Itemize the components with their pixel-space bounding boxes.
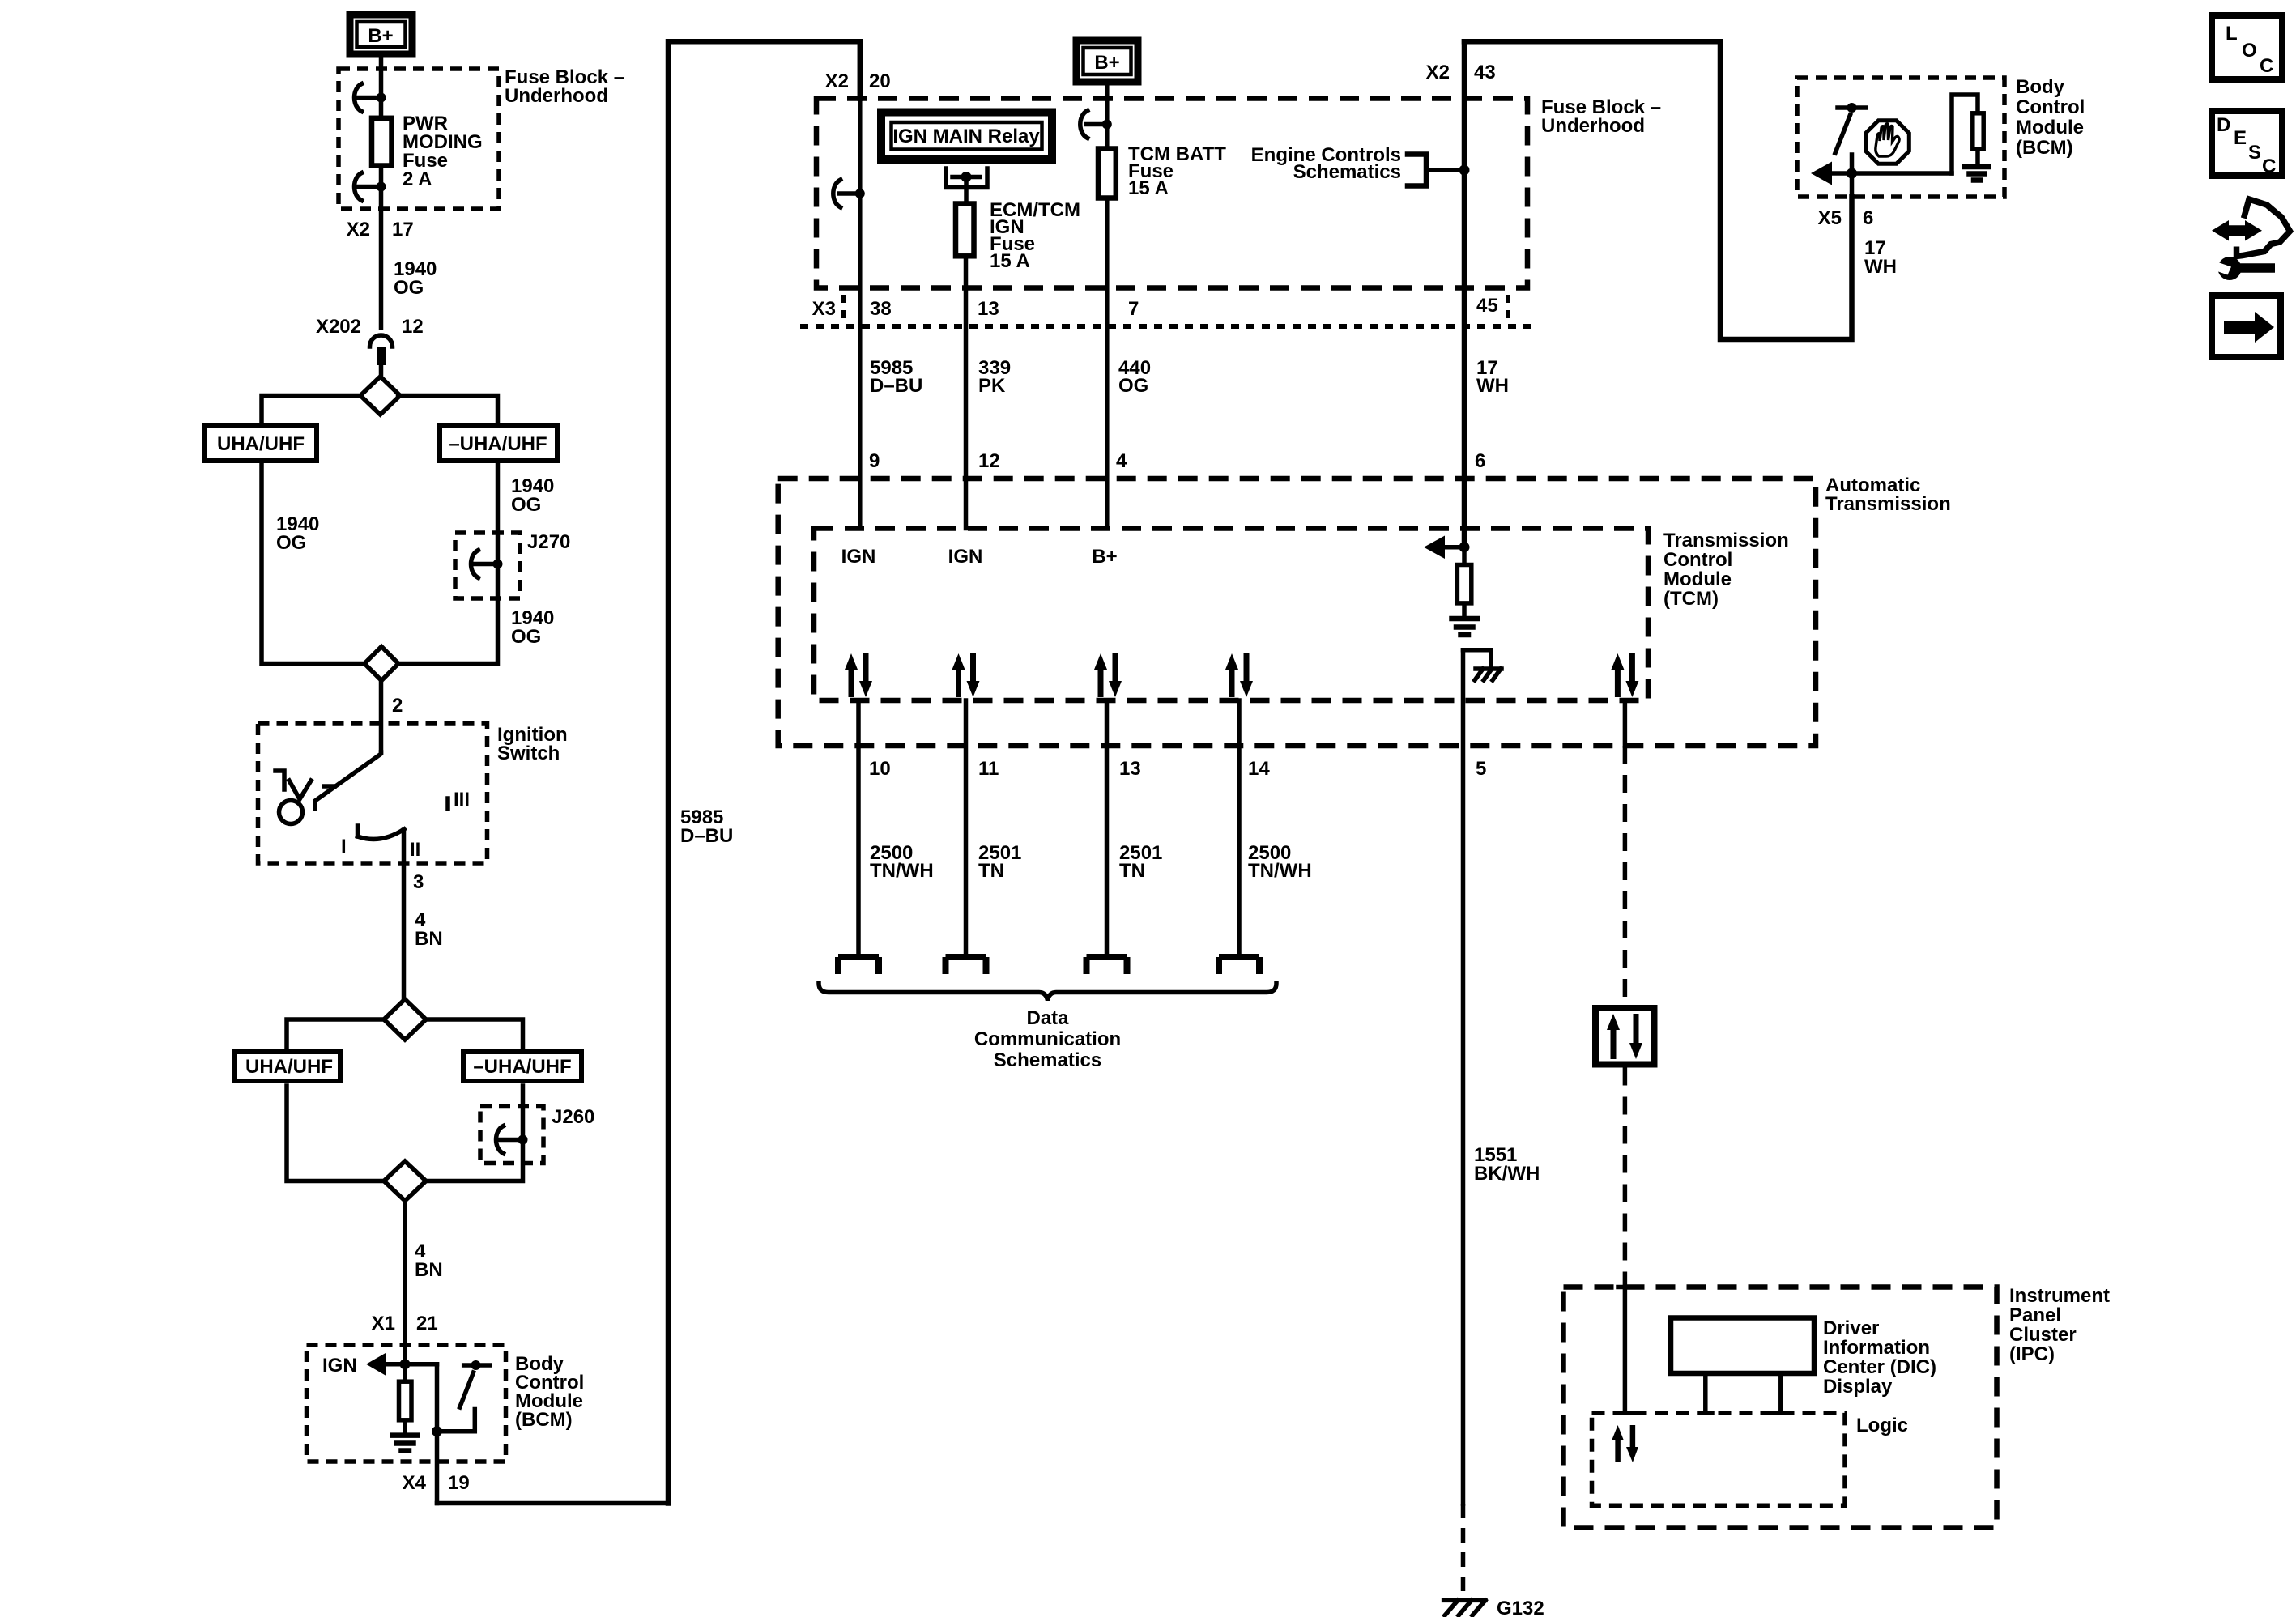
- bracket Engine Controls: [1408, 155, 1470, 186]
- svg-text:J270: J270: [527, 531, 570, 553]
- wire IPC link solid segment: [1623, 700, 1628, 746]
- terminator wire 11: [946, 957, 986, 974]
- wire TCM pin 13: [1105, 700, 1110, 954]
- node IGN label with arrow: [322, 1353, 437, 1377]
- svg-text:43: 43: [1474, 62, 1496, 83]
- body control module dashed box (bottom left): [307, 1345, 506, 1462]
- ignition key symbol: [275, 771, 334, 824]
- wire right branch down: [398, 463, 498, 664]
- wire IPC link dashed lower: [1623, 1068, 1628, 1287]
- connector X3 tick right: [1506, 295, 1510, 326]
- fuse ECM/TCM IGN 15A: [956, 204, 974, 257]
- wire diamond S3 to UHA/UHF left lower: [287, 1019, 384, 1049]
- resistor in BCM top right: [1952, 95, 1983, 173]
- TCM dashed box: [814, 529, 1648, 701]
- node -UHA/UHF (upper right): [440, 426, 557, 461]
- icon wrench: [2215, 257, 2275, 280]
- svg-text:O: O: [2242, 40, 2257, 62]
- svg-text:2: 2: [392, 695, 403, 717]
- ignition switch wiper arc: [358, 826, 405, 839]
- wire 43/45 through fuse block: [1462, 41, 1467, 547]
- chassis ground branch in TCM: [1463, 650, 1502, 680]
- connector terminal top of fuse: [355, 84, 386, 112]
- ignition switch dashed box: [258, 723, 488, 863]
- instrument panel cluster dashed box: [1564, 1287, 1997, 1528]
- fuse block underhood dashed box (middle): [816, 99, 1527, 288]
- svg-text:II: II: [410, 839, 420, 861]
- svg-text:X4: X4: [403, 1472, 427, 1494]
- terminator wire 10: [838, 957, 879, 974]
- data arrow pair (pin 13): [1094, 653, 1122, 697]
- svg-text:14: 14: [1248, 758, 1270, 780]
- splice J260 dashed box: [480, 1107, 543, 1164]
- terminator wire 14: [1219, 957, 1259, 974]
- svg-text:B+: B+: [1092, 546, 1117, 568]
- svg-text:–UHA/UHF: –UHA/UHF: [449, 433, 547, 455]
- svg-text:13: 13: [978, 298, 999, 320]
- ground symbol in BCM: [393, 1436, 418, 1451]
- svg-text:X2: X2: [825, 70, 849, 92]
- icon forward arrow box: [2212, 296, 2281, 357]
- wire IPC link dashed upper: [1623, 746, 1628, 1005]
- wire BCM pin 19 to riser: [437, 1501, 669, 1506]
- svg-text:IgnitionSwitch: IgnitionSwitch: [497, 724, 568, 764]
- svg-text:X202: X202: [316, 316, 361, 338]
- body control module dashed box (top right): [1797, 78, 2004, 197]
- wire TCM pin 5 (solid part): [1461, 650, 1466, 1504]
- resistor in BCM: [399, 1364, 412, 1434]
- splice diamond S1: [360, 377, 400, 415]
- connector X3 line (dotted): [800, 324, 1539, 329]
- svg-text:12: 12: [402, 316, 424, 338]
- connector terminal on wire 20: [833, 180, 865, 207]
- ground symbol in BCM top right: [1965, 167, 1988, 181]
- automatic transmission dashed box: [778, 479, 1816, 746]
- svg-text:X2: X2: [347, 219, 370, 240]
- svg-text:E: E: [2234, 127, 2247, 149]
- data arrow pair (pin 11): [952, 653, 980, 697]
- icon DESC box: [2212, 111, 2282, 177]
- svg-text:5: 5: [1476, 758, 1486, 780]
- svg-text:19: 19: [448, 1472, 470, 1494]
- wire 20 through fuse block down to TCM: [858, 99, 863, 529]
- svg-text:X1: X1: [372, 1313, 395, 1334]
- svg-text:III: III: [454, 789, 470, 811]
- wire diamond to UHA/UHF left: [262, 396, 362, 424]
- wire B+ to TCM BATT fuse down to TCM: [1105, 82, 1110, 529]
- terminator wire 13: [1087, 957, 1127, 974]
- wire left branch down: [262, 463, 362, 664]
- logic dashed box: [1592, 1413, 1846, 1505]
- data arrow pair (pin 14): [1225, 653, 1253, 697]
- svg-text:3: 3: [413, 871, 424, 893]
- wire TCM pin 5 (dashed part): [1461, 1504, 1466, 1600]
- switch in BCM top right: [1835, 103, 1866, 197]
- svg-text:12: 12: [978, 450, 1000, 472]
- DIC display box: [1671, 1318, 1814, 1374]
- svg-text:X2: X2: [1426, 62, 1450, 83]
- wire BCM internal right branch: [435, 1364, 440, 1504]
- wire 13 fuse to TCM: [964, 259, 969, 529]
- relay IGN MAIN Relay box: [881, 113, 1052, 160]
- battery feed B+ box (top left): [350, 15, 412, 54]
- arrow left in BCM: [1811, 162, 1952, 185]
- svg-text:–UHA/UHF: –UHA/UHF: [473, 1056, 571, 1078]
- splice J260 connector symbol: [496, 1126, 528, 1154]
- ignition position mark III: [448, 789, 470, 811]
- ground symbol in TCM: [1452, 619, 1477, 635]
- svg-text:6: 6: [1475, 450, 1485, 472]
- splice diamond S3: [384, 999, 426, 1040]
- data arrow pair (IPC link): [1611, 653, 1638, 697]
- wire B+ to PWR MODING fuse: [379, 54, 384, 328]
- node -UHA/UHF (lower right): [463, 1052, 581, 1081]
- svg-text:IGN: IGN: [841, 546, 876, 568]
- svg-text:B+: B+: [368, 25, 393, 47]
- icon harness double arrow: [2212, 199, 2290, 257]
- connector terminal bottom of fuse: [355, 173, 386, 201]
- svg-text:C: C: [2260, 55, 2273, 77]
- fuse PWR MODING 2A: [372, 118, 392, 166]
- brace data communication: [819, 984, 1276, 1001]
- connector X202 symbol: [370, 335, 393, 377]
- svg-text:20: 20: [869, 70, 891, 92]
- svg-text:UHA/UHF: UHA/UHF: [245, 1056, 333, 1078]
- svg-text:Logic: Logic: [1856, 1415, 1908, 1436]
- svg-text:J260: J260: [552, 1106, 594, 1128]
- wire diamond S2 to ignition switch: [379, 681, 384, 753]
- splice diamond S2: [364, 647, 398, 681]
- svg-text:D: D: [2217, 114, 2230, 136]
- battery feed B+ box (middle): [1076, 40, 1138, 82]
- svg-text:IGN: IGN: [948, 546, 983, 568]
- ground G132: [1444, 1598, 1544, 1617]
- splice J270 dashed box: [455, 533, 520, 598]
- svg-text:Fuse Block –Underhood: Fuse Block –Underhood: [1541, 96, 1661, 137]
- svg-text:21: 21: [416, 1313, 438, 1334]
- data arrow box on IPC link: [1595, 1008, 1655, 1065]
- svg-text:B+: B+: [1094, 52, 1119, 74]
- wire riser 5985 D-BU (long vertical + top link): [668, 41, 860, 1503]
- wire diamond S3 to -UHA/UHF lower right: [426, 1019, 523, 1049]
- svg-text:4: 4: [1116, 450, 1127, 472]
- switch in BCM: [437, 1360, 490, 1432]
- svg-text:38: 38: [870, 298, 892, 320]
- connector X3 tick left: [841, 295, 846, 326]
- svg-text:9: 9: [869, 450, 880, 472]
- node UHA/UHF (upper left): [205, 426, 317, 461]
- wire lower left branch: [287, 1086, 384, 1181]
- svg-text:I: I: [341, 836, 347, 857]
- wire lower right branch: [426, 1086, 523, 1181]
- svg-text:X3: X3: [812, 298, 836, 320]
- fuse block underhood dashed box (left): [339, 69, 499, 209]
- wire TCM pin 14: [1237, 700, 1242, 954]
- svg-text:13: 13: [1119, 758, 1141, 780]
- splice diamond S4: [384, 1161, 426, 1201]
- svg-text:G132: G132: [1497, 1598, 1544, 1617]
- svg-text:45: 45: [1476, 295, 1498, 317]
- svg-text:X5: X5: [1818, 207, 1842, 229]
- node UHA/UHF (lower left): [235, 1052, 340, 1081]
- wire ignition switch out (pin 3): [402, 829, 407, 999]
- svg-text:10: 10: [869, 758, 891, 780]
- stop-hand octagon icon: [1866, 121, 1910, 164]
- data arrow pair (logic): [1612, 1425, 1638, 1462]
- connector terminal on wire 7: [1080, 111, 1112, 138]
- svg-text:440OG: 440OG: [1118, 357, 1151, 397]
- wire TCM pin 11: [964, 700, 969, 954]
- svg-text:6: 6: [1863, 207, 1873, 229]
- icon LOC box: [2212, 15, 2282, 79]
- wire into IPC/logic: [1618, 1287, 1632, 1413]
- DIC display legs: [1699, 1373, 1787, 1413]
- wire diamond to -UHA/UHF right: [398, 396, 498, 424]
- arrow into TCM (pin 6) with resistor to ground: [1424, 536, 1472, 618]
- svg-text:11: 11: [978, 758, 999, 780]
- svg-text:L: L: [2226, 23, 2238, 45]
- fuse TCM BATT 15A: [1098, 149, 1116, 198]
- svg-text:C: C: [2262, 155, 2276, 177]
- data arrow pair (pin 10): [845, 653, 872, 697]
- wire diamond S4 to BCM: [403, 1201, 407, 1364]
- svg-text:IGN: IGN: [322, 1355, 357, 1377]
- svg-text:S: S: [2248, 142, 2261, 164]
- svg-text:7: 7: [1128, 298, 1139, 320]
- svg-text:17: 17: [392, 219, 414, 240]
- wire TCM pin 10: [856, 700, 861, 954]
- svg-text:IGN MAIN Relay: IGN MAIN Relay: [892, 126, 1040, 147]
- ignition switch blade (pos III wiper): [315, 752, 381, 809]
- splice J270 connector symbol: [471, 551, 503, 578]
- relay contact symbol: [946, 168, 987, 204]
- wire fuse block to BCM (top run): [1464, 41, 1852, 339]
- svg-text:UHA/UHF: UHA/UHF: [217, 433, 305, 455]
- svg-text:Fuse Block –Underhood: Fuse Block –Underhood: [505, 66, 624, 107]
